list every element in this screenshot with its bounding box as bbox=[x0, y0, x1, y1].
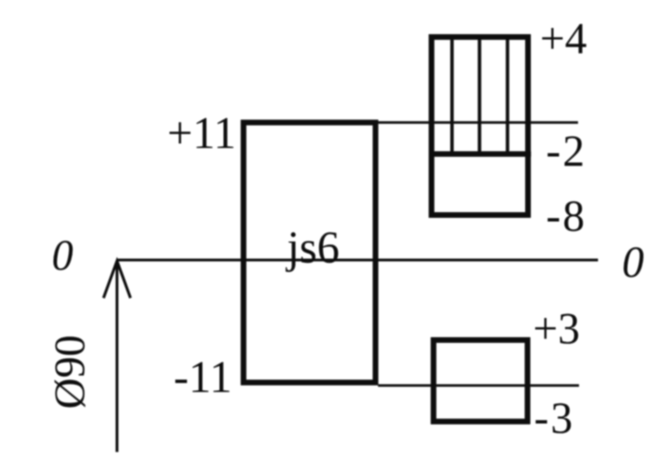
svg-text:js6: js6 bbox=[285, 223, 340, 273]
svg-text:0: 0 bbox=[622, 238, 644, 287]
hatch line 2 bbox=[478, 36, 481, 155]
svg-text:-8: -8 bbox=[546, 192, 587, 241]
shaft tolerance zone (bottom-right box) bbox=[434, 340, 528, 422]
svg-text:-2: -2 bbox=[546, 127, 587, 176]
hatch line 3 bbox=[506, 36, 509, 155]
zero line bbox=[117, 259, 598, 262]
svg-text:0: 0 bbox=[52, 233, 74, 280]
hatch line 1 bbox=[450, 36, 453, 155]
tolerance zone js6 (shaft, big box) bbox=[244, 123, 376, 383]
divider line at -2 bbox=[429, 151, 531, 157]
svg-text:+3: +3 bbox=[533, 304, 580, 353]
svg-text:+4: +4 bbox=[540, 14, 587, 63]
svg-text:Ø90: Ø90 bbox=[47, 335, 94, 409]
arrowhead bbox=[104, 261, 131, 298]
svg-text:-3: -3 bbox=[534, 394, 575, 443]
lower deviation line (-11 level extension) bbox=[378, 384, 579, 387]
hole tolerance zone (top-right box) bbox=[432, 37, 529, 215]
svg-text:+11: +11 bbox=[167, 108, 236, 158]
upper deviation line (+11 level extension) bbox=[378, 121, 578, 124]
svg-text:-11: -11 bbox=[174, 352, 232, 402]
dimension arrow shaft bbox=[116, 261, 119, 452]
